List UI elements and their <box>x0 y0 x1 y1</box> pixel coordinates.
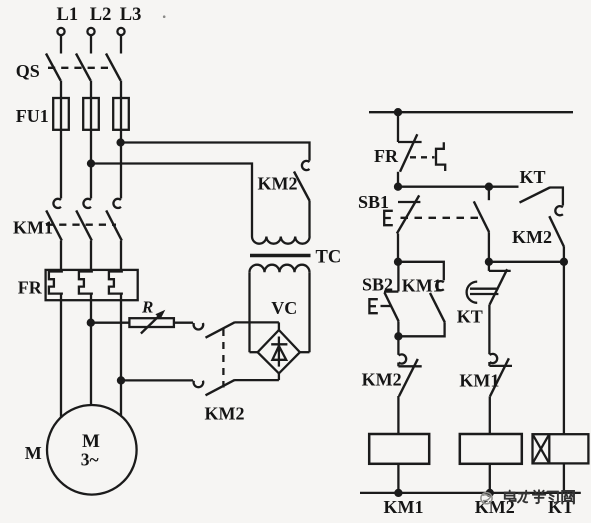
contactor KM1 main pole 1 blade <box>46 210 62 240</box>
KT delay symbol lines <box>470 289 498 294</box>
motor text 3~ <box>81 450 99 470</box>
contactor KM1 main pole 3 blade <box>106 210 122 240</box>
svg-text:L2: L2 <box>90 5 112 25</box>
SB1 NO parallel contact upper wire <box>488 187 490 201</box>
svg-text:R: R <box>141 298 153 317</box>
QS interlock dashed link <box>48 67 114 69</box>
wire SB2 to node3 <box>397 321 399 336</box>
contactor KM1 main pole 2 hook <box>83 199 91 208</box>
watermark logo circle <box>481 493 492 504</box>
contactor KM1 main pole 1 hook <box>53 199 61 208</box>
svg-text:KM2: KM2 <box>258 174 298 194</box>
wire bridge right stub <box>300 351 310 353</box>
KM1 interlock dashed link <box>46 224 116 226</box>
wire L3 tap to KM2 contact <box>121 143 310 161</box>
label FU1 <box>16 106 49 126</box>
wire L1 QS to KM1 <box>60 81 62 199</box>
contactor KM2 NO contact blade <box>549 216 564 247</box>
label KM2 interlock <box>362 370 402 390</box>
junction bottom KM2 <box>487 490 493 496</box>
label KM1 main <box>13 217 53 237</box>
label VC <box>271 298 297 318</box>
KM2 NC hook <box>398 354 406 366</box>
contactor KM2 NC interlock wire <box>397 336 399 355</box>
junction tap L3 to TC primary <box>118 140 124 146</box>
label FR control <box>374 146 399 166</box>
button SB2 blade <box>384 292 398 321</box>
wire node1 horizontal <box>398 186 519 188</box>
wire L3 drop to QS <box>120 35 122 53</box>
wire bridge left stub <box>250 351 258 353</box>
label R <box>141 298 153 317</box>
FR heater element 2 <box>79 272 93 294</box>
motor text M <box>82 431 100 452</box>
svg-text:KM2: KM2 <box>205 404 245 424</box>
junction node3 <box>395 333 401 339</box>
svg-text:KM1: KM1 <box>459 370 499 390</box>
KM2 brake contact lower blade <box>206 380 235 395</box>
wire KT contact right <box>550 188 563 206</box>
SB1 NO parallel contact blade <box>474 201 489 232</box>
wire L2 drop to QS <box>90 35 92 53</box>
SB2 dash <box>381 305 391 307</box>
button SB2 crossbar <box>384 290 398 292</box>
FR contact blade <box>400 134 417 172</box>
wire KT contact to KM1 NC <box>488 305 490 355</box>
wire KM2 NO to node2 right <box>563 247 565 262</box>
label L3 <box>120 5 142 25</box>
watermark text dianli xuexi wang <box>505 490 574 503</box>
svg-text:M: M <box>25 443 42 463</box>
svg-text:L1: L1 <box>57 5 79 25</box>
contactor KM2 primary contact fixed hook <box>302 161 310 170</box>
junction tap L2 to TC primary <box>88 161 94 167</box>
label L1 <box>57 5 79 25</box>
wire parallel contact to node2 mid <box>488 232 490 262</box>
label KM2 coil <box>475 497 515 517</box>
switch QS pole 3 blade <box>106 54 121 81</box>
FR contact crossbar <box>398 141 422 143</box>
svg-text:SB2: SB2 <box>362 274 393 294</box>
label TC <box>316 247 342 267</box>
label KM2 primary <box>258 174 298 194</box>
wire L1 drop to QS <box>60 35 62 53</box>
FR trip dashed link <box>410 156 435 158</box>
switch QS pole 2 blade <box>76 54 91 81</box>
coil KM1 <box>369 434 429 464</box>
switch QS pole 1 blade <box>46 54 61 81</box>
wire bridge bottom stub <box>278 373 280 380</box>
KM2 brake link dashed <box>222 329 224 388</box>
wire coil KT to bottom rail <box>563 463 565 493</box>
junction bottom KM1 <box>395 490 401 496</box>
label M outside <box>25 443 42 463</box>
timer KT NO contact blade <box>520 188 550 203</box>
label KM2 brake <box>205 404 245 424</box>
svg-text:VC: VC <box>271 298 297 318</box>
coil KT delay X <box>533 434 550 463</box>
wire TC secondary right to bridge <box>308 272 310 352</box>
resistor R body <box>129 318 174 327</box>
wire L3 QS to KM1 <box>120 81 122 199</box>
KM2 NC blade <box>399 359 418 396</box>
wire lower blade to bridge bottom <box>235 379 279 381</box>
terminal L2 <box>87 28 94 35</box>
KM1 NC blade <box>490 358 509 396</box>
KM1 NC hook <box>489 354 497 366</box>
KM2 NC crossbar <box>398 365 421 367</box>
FR heater element 3 <box>109 272 123 294</box>
fuse FU1 element 2 <box>83 98 99 130</box>
motor M circle <box>47 405 137 495</box>
KT delay symbol arc <box>467 282 478 303</box>
rectifier VC bridge diamond <box>258 330 300 373</box>
wire FR to node1 <box>397 172 399 187</box>
coil KT box <box>533 434 589 463</box>
junction node1 left <box>395 184 401 190</box>
svg-text:3~: 3~ <box>81 450 99 470</box>
wire phase U KM1 to FR <box>60 241 62 272</box>
transformer TC secondary winding <box>250 265 310 273</box>
svg-text:KM1: KM1 <box>13 217 53 237</box>
junction node2 mid <box>486 259 492 265</box>
speck artifact <box>163 15 166 18</box>
svg-text:FU1: FU1 <box>16 106 49 126</box>
wire junction to R <box>91 322 129 324</box>
wire coil KM2 to bottom rail <box>489 464 491 493</box>
svg-text:FR: FR <box>18 278 43 298</box>
KM2 brake contact lower hook <box>194 381 204 387</box>
svg-text:KM1: KM1 <box>384 497 424 517</box>
thermal relay FR heater block <box>46 270 138 300</box>
resistor R adjust arrow <box>141 310 165 334</box>
wire node2 horizontal right <box>489 261 564 263</box>
rectifier VC diode symbol <box>271 337 287 367</box>
button SB1 blade <box>397 195 419 233</box>
terminal L3 <box>117 28 124 35</box>
svg-text:KM1: KM1 <box>402 275 442 295</box>
wire SB1 to node2 <box>397 234 399 262</box>
label KT coil <box>548 497 574 517</box>
wire node2 to KM1 NO branch <box>398 262 444 281</box>
button SB1 crossbar <box>398 201 420 203</box>
junction top rail <box>395 109 401 115</box>
FR heater element 1 <box>49 272 63 294</box>
wire R to KM2 brake contact upper <box>174 322 193 324</box>
fuse FU1 element 1 <box>53 98 69 130</box>
label KM1 aux NO <box>402 275 442 295</box>
svg-text:QS: QS <box>16 61 40 81</box>
wire phase V KM1 to FR <box>90 241 92 272</box>
svg-text:L3: L3 <box>120 5 142 25</box>
label KM2 right <box>512 227 552 247</box>
wire junction to lower contact <box>121 379 193 381</box>
timer KT delayed contact wire <box>488 262 490 271</box>
label KM1 coil <box>384 497 424 517</box>
label KT mid <box>457 307 483 327</box>
junction phase W to brake lower <box>118 377 124 383</box>
KM2 brake contact upper hook <box>194 323 204 329</box>
KT delayed crossbar <box>489 270 511 272</box>
wire L2 QS to KM1 <box>90 81 92 199</box>
junction node2 right <box>561 259 567 265</box>
contactor KM1 NO aux blade <box>430 293 445 322</box>
FR trip actuator bracket <box>436 142 445 171</box>
contactor KM2 NO contact hook <box>555 206 563 215</box>
wire KM2 blade to TC primary right <box>308 201 310 237</box>
junction node1 mid <box>486 184 492 190</box>
wire KM1 NO to node3 <box>398 322 444 336</box>
junction node2 left <box>395 259 401 265</box>
wire phase W FR to motor <box>120 294 122 416</box>
svg-text:KT: KT <box>520 167 546 187</box>
button SB2 actuator E <box>369 299 377 313</box>
wire phase U FR to motor <box>60 294 62 418</box>
KT delayed blade <box>490 269 508 304</box>
wire KM2 NC to coil KM1 <box>397 396 399 434</box>
transformer TC core <box>250 254 311 258</box>
transformer TC primary winding <box>252 237 310 244</box>
button SB2 wire upper <box>397 262 399 292</box>
wire phase W KM1 to FR <box>120 241 122 272</box>
SB1 dashed link <box>401 217 479 219</box>
contactor KM2 primary contact blade <box>294 172 310 202</box>
label QS <box>16 61 40 81</box>
label L2 <box>90 5 112 25</box>
contactor KM1 NO aux hook <box>436 281 444 290</box>
wire node2 right to coil KT <box>563 262 565 434</box>
KM2 brake contact upper blade <box>206 322 235 337</box>
label FR power <box>18 278 43 298</box>
svg-text:FR: FR <box>374 146 399 166</box>
contactor KM1 main pole 3 hook <box>113 199 121 208</box>
svg-text:KT: KT <box>457 307 483 327</box>
wire coil KM1 to bottom rail <box>397 464 399 493</box>
junction phase V to resistor R <box>88 320 94 326</box>
contactor KM1 main pole 2 blade <box>76 210 92 240</box>
label SB1 <box>358 192 389 212</box>
button SB1 actuator E <box>384 211 393 225</box>
wire phase V FR to motor <box>90 294 92 406</box>
wire rail to FR contact <box>397 112 399 142</box>
wire KM1 NC to coil KM2 <box>489 396 491 434</box>
svg-text:KM2: KM2 <box>512 227 552 247</box>
svg-text:SB1: SB1 <box>358 192 389 212</box>
wire L2 tap to TC primary left <box>91 164 252 237</box>
svg-text:KM2: KM2 <box>362 370 402 390</box>
wire TC secondary left to bridge <box>248 272 250 352</box>
wire upper blade to bridge top <box>235 321 279 323</box>
wire control bottom rail <box>360 492 581 494</box>
coil KM2 <box>460 434 522 464</box>
svg-text:TC: TC <box>316 247 342 267</box>
label KT top <box>520 167 546 187</box>
terminal L1 <box>57 28 64 35</box>
wire bridge top stub <box>278 322 280 330</box>
KM1 NC crossbar <box>489 365 512 367</box>
wire control top rail <box>369 111 573 113</box>
label SB2 <box>362 274 393 294</box>
label KM1 interlock <box>459 370 499 390</box>
fuse FU1 element 3 <box>113 98 129 130</box>
